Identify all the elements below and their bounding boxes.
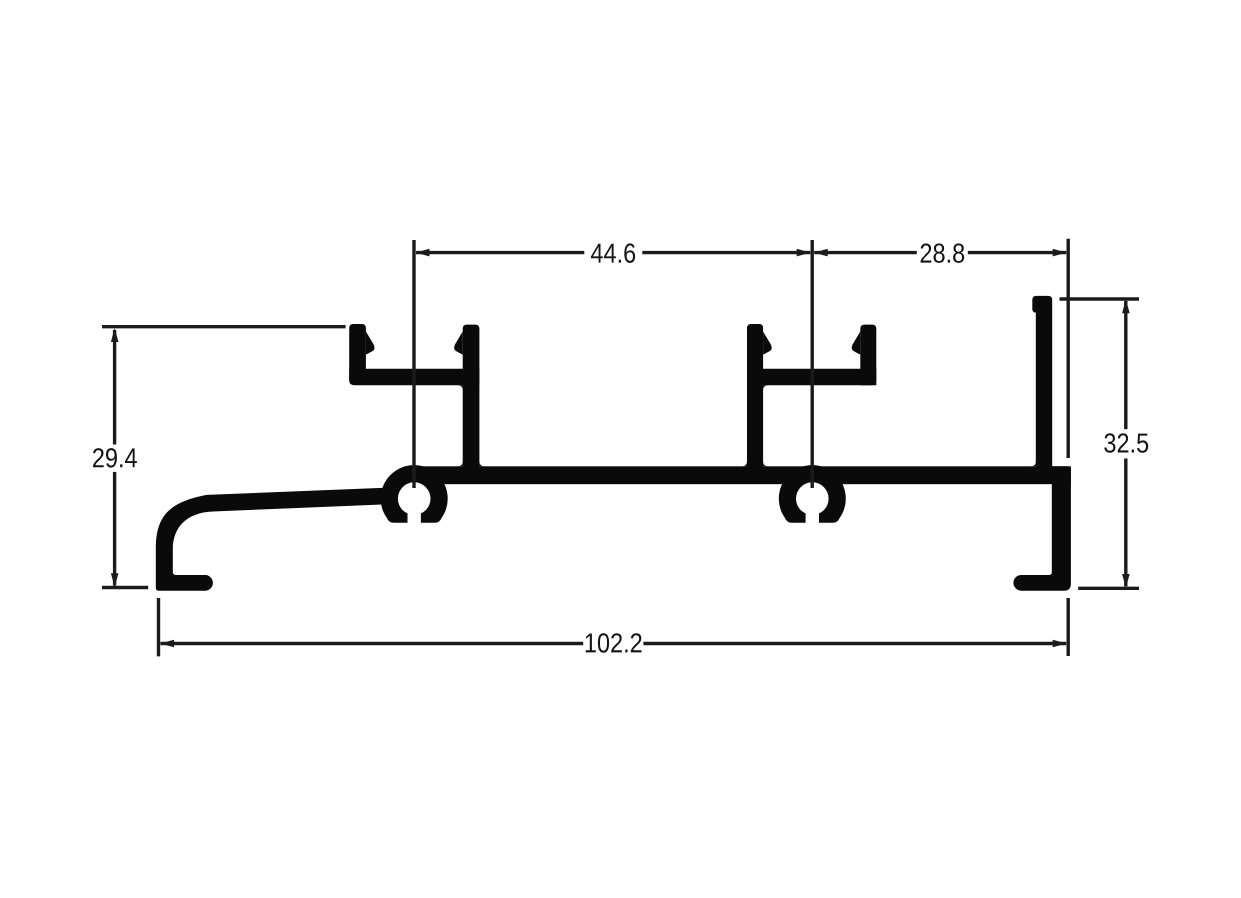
extension line 102.2 left [157,598,160,656]
boss 2 screw hole [796,482,829,515]
channel 2 right wall fang [852,332,861,355]
channel 1 long right wall [463,325,480,484]
label 32.5 [1104,433,1148,453]
boss 2 slot [806,499,819,531]
dimension line 44.6 [416,251,810,254]
dimension line 32.5 [1124,301,1127,586]
boss 1 screw hole [398,482,431,515]
label 29.4 [93,448,137,468]
arrow 29.4 bottom [111,573,119,587]
channel 1 short left wall [349,324,366,380]
extension line between 44.6 and 28.8 [811,240,814,488]
boss 1 slot [408,499,421,531]
channel 1 mid web [349,369,479,385]
label 32.5 background [1103,429,1149,458]
channel 2 left wall fang [763,332,772,355]
right lower wall and hook foot [1013,466,1070,590]
extension line right upper [1066,239,1069,458]
extension line 32.5 top [1060,297,1140,300]
screw boss 1 outer [381,465,448,523]
extension line 29.4 top [102,325,346,328]
channel 1 left wall fang [366,332,375,355]
arrow 28.8 left [814,249,828,257]
channel 2 short right wall [860,325,876,386]
channel 2 wall-base fillet left [742,461,747,466]
extension line left of 44.6 [412,240,415,488]
arrow 29.4 top [111,328,119,342]
label 44.6 background [584,240,642,266]
dimension line 28.8 [814,251,1066,254]
arrow 102.2 left [160,640,174,648]
channel 2 mid web [747,369,876,385]
channel 2 web-wall fillet [763,385,768,390]
extension line right lower [1066,598,1069,656]
channel 1 web-wall fillet [457,385,462,390]
dimension line 29.4 [113,330,116,586]
extension line 29.4 bottom [102,586,148,589]
label 44.6 [591,243,635,263]
base web [405,466,1071,484]
label 28.8 background [917,240,968,266]
label 29.4 background [92,445,138,472]
label 28.8 [921,243,965,263]
arrow 44.6 right [797,249,811,257]
channel 2 long left wall [747,324,763,484]
channel 1 wall-base fillet right [479,461,484,466]
arrow 32.5 bottom [1122,574,1130,588]
left sill ramp with hook foot [156,487,405,591]
arrow 44.6 left [416,249,430,257]
screw boss 2 outer [779,465,846,523]
dimension line 102.2 [161,642,1067,645]
channel 1 wall-base fillet left [458,461,463,466]
right upper wall with top lip [1032,296,1052,484]
extension line 32.5 bottom [1078,587,1139,590]
right upper wall base fillet [1031,461,1036,466]
arrow 28.8 right [1053,249,1067,257]
label 102.2 [586,633,642,653]
label 102.2 background [583,630,643,656]
arrow 102.2 right [1053,640,1067,648]
arrow 32.5 top [1122,299,1130,313]
channel 2 wall-base fillet right [763,461,768,466]
channel 1 right wall fang [454,332,463,355]
